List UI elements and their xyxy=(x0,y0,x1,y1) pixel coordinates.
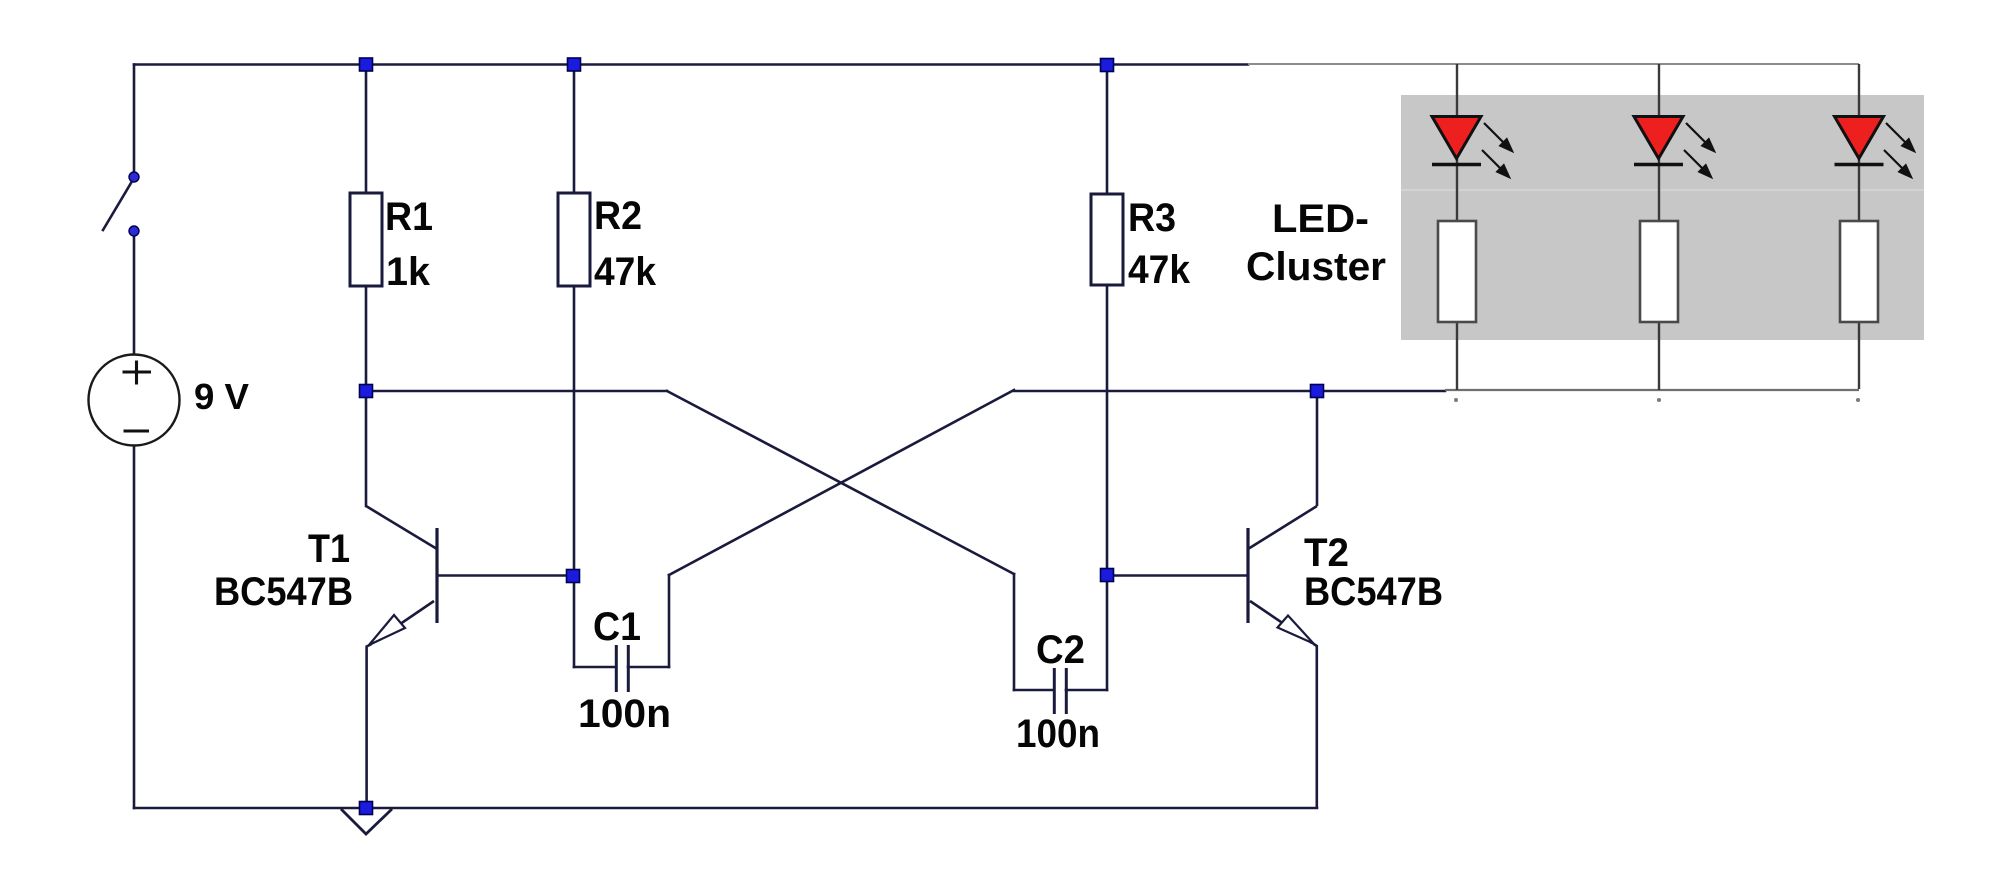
capacitor C1 plates xyxy=(616,645,628,692)
svg-text:47k: 47k xyxy=(594,250,657,294)
wire C2 left lead xyxy=(1014,689,1053,692)
LED D1 xyxy=(1432,117,1481,159)
svg-text:T2: T2 xyxy=(1304,531,1349,575)
wire source to bottom rail xyxy=(133,446,136,809)
wire T1 base node to C1 xyxy=(573,576,576,667)
wire R2 top xyxy=(573,65,576,194)
LED cluster resistor 2 xyxy=(1640,221,1678,322)
ground symbol xyxy=(341,809,392,834)
capacitor C2 plates xyxy=(1054,668,1066,714)
wire R3 bottom to T2 base node xyxy=(1106,285,1109,575)
wire left top (to switch) xyxy=(133,65,136,173)
wire C1 left lead xyxy=(574,666,615,669)
svg-text:C1: C1 xyxy=(593,605,641,649)
svg-text:R2: R2 xyxy=(594,194,642,238)
resistor R2 body xyxy=(558,193,590,286)
junction node top R2 xyxy=(568,58,581,71)
wire R2 bottom to T1 base node xyxy=(573,286,576,576)
svg-text:47k: 47k xyxy=(1128,248,1191,292)
wire C2 right lead xyxy=(1066,689,1107,692)
svg-text:Cluster: Cluster xyxy=(1246,245,1386,289)
wire switch to source xyxy=(133,236,136,355)
artifact dot 3 xyxy=(1856,398,1860,402)
svg-text:R1: R1 xyxy=(385,195,433,239)
svg-text:T1: T1 xyxy=(308,527,350,571)
voltage source plus sign xyxy=(123,361,152,385)
junction node top R1 xyxy=(360,58,373,71)
svg-text:BC547B: BC547B xyxy=(214,570,353,614)
artifact dot 1 xyxy=(1454,398,1458,402)
wire diagonal C1 to T2-collector xyxy=(669,390,1014,575)
wire R3 top xyxy=(1106,65,1109,194)
junction node T1 base xyxy=(567,570,580,583)
switch contact dot bottom xyxy=(129,226,139,236)
wire C2 left vertical xyxy=(1013,574,1016,690)
svg-text:9 V: 9 V xyxy=(194,376,249,417)
LED cluster bottom gray rail xyxy=(1445,389,1859,391)
wire R1 top xyxy=(365,65,368,194)
wire T2 base node to C2 xyxy=(1106,575,1109,690)
svg-text:C2: C2 xyxy=(1036,628,1085,672)
svg-text:LED-: LED- xyxy=(1272,197,1369,241)
transistor T1 xyxy=(366,506,567,808)
LED branch 3 wires xyxy=(1858,64,1860,389)
junction node T2 base xyxy=(1101,569,1114,582)
LED D2 light arrows xyxy=(1684,123,1714,177)
LED cluster resistor 3 xyxy=(1840,221,1878,322)
LED branch 1 wires xyxy=(1456,64,1458,390)
artifact dot 2 xyxy=(1657,398,1661,402)
junction node mid right (T2 collector) xyxy=(1311,385,1324,398)
svg-text:100n: 100n xyxy=(1016,712,1100,756)
resistor R1 body xyxy=(350,193,382,286)
wire C1 right vertical xyxy=(668,575,671,667)
wire mid rail right xyxy=(1014,390,1445,393)
LED D1 light arrows xyxy=(1482,123,1512,177)
LED cluster resistor 1 xyxy=(1438,221,1476,322)
svg-text:1k: 1k xyxy=(386,250,431,294)
LED D3 xyxy=(1835,117,1884,159)
junction node mid left xyxy=(360,385,373,398)
svg-text:BC547B: BC547B xyxy=(1304,570,1443,614)
LED D3 light arrows xyxy=(1884,123,1914,177)
LED D2 xyxy=(1634,117,1683,159)
junction node top R3 xyxy=(1101,59,1114,72)
wire node to T1 collector xyxy=(365,391,368,506)
wire top rail xyxy=(134,63,1248,66)
LED cluster gray background xyxy=(1401,95,1924,340)
wire mid rail left xyxy=(366,390,667,393)
LED cluster top gray rail xyxy=(1248,63,1859,65)
switch contact dot top xyxy=(129,172,139,182)
voltage source V1 circle xyxy=(89,355,180,446)
transistor T2 xyxy=(1113,391,1317,808)
svg-text:100n: 100n xyxy=(578,692,671,736)
LED branch 2 wires xyxy=(1658,64,1660,390)
svg-text:R3: R3 xyxy=(1128,196,1176,240)
gray box seam xyxy=(1401,189,1924,191)
wire bottom rail xyxy=(134,807,1317,810)
voltage source minus sign xyxy=(124,429,150,432)
wire R1 bottom to node xyxy=(365,286,368,391)
wire diagonal T1-collector to C2 xyxy=(667,391,1014,574)
junction node ground xyxy=(360,802,373,815)
switch S1 blade xyxy=(103,183,131,230)
wire C1 right lead xyxy=(628,666,669,669)
resistor R3 body xyxy=(1091,194,1123,285)
